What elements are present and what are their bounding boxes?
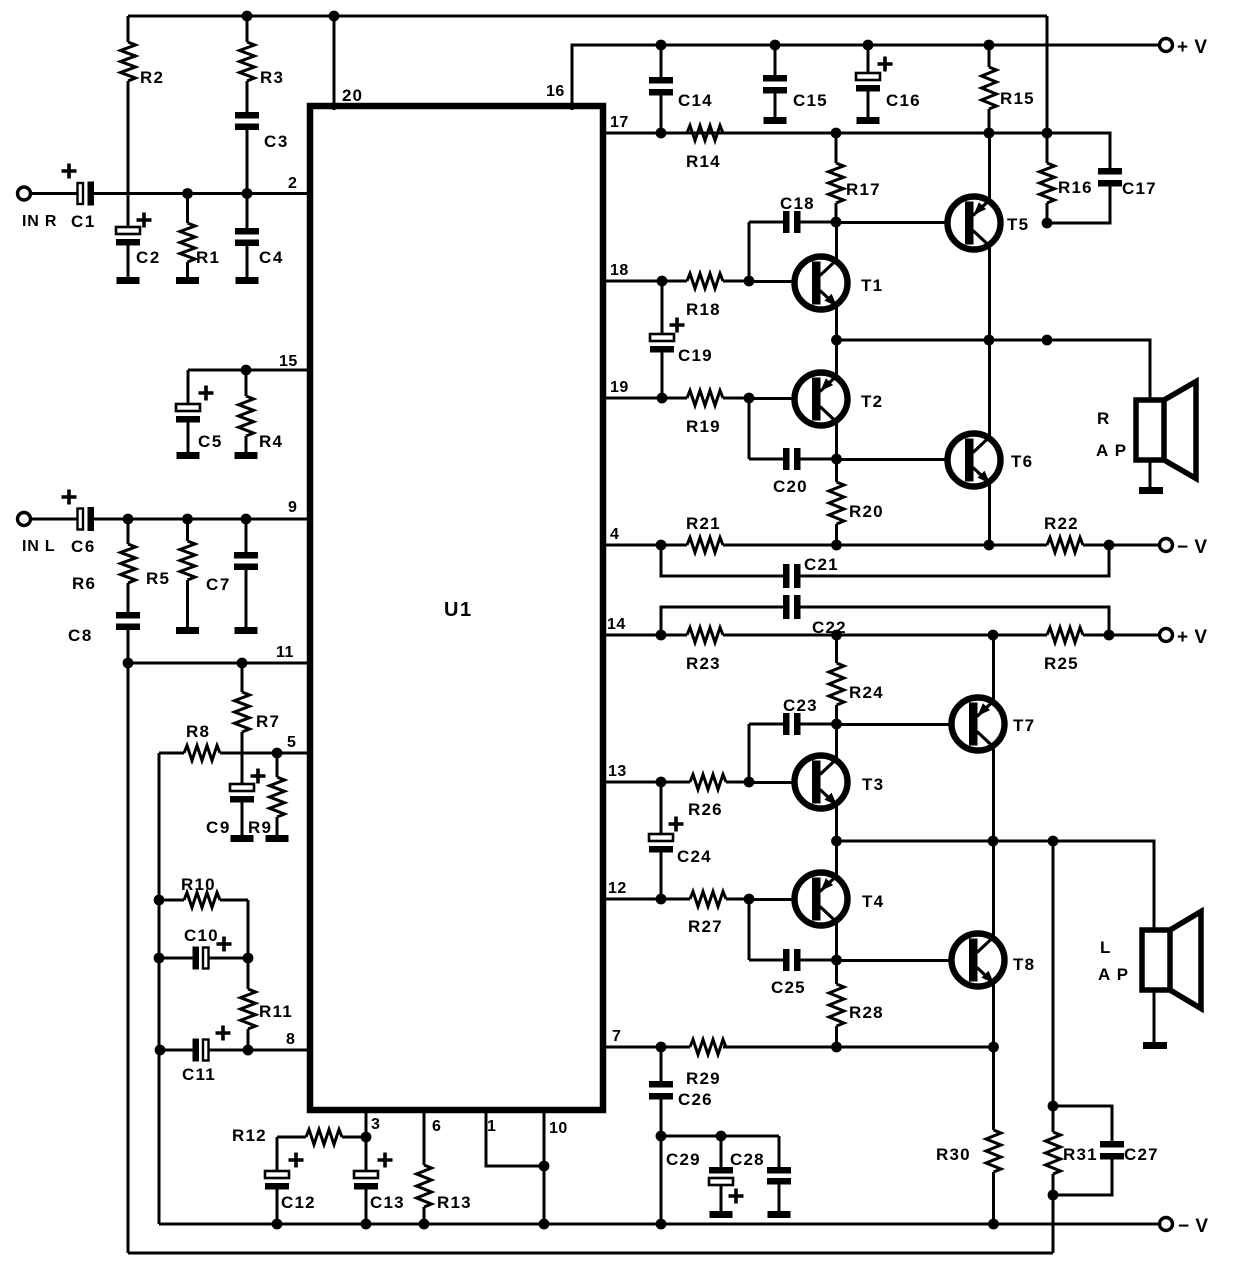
capacitor C28 bbox=[767, 1136, 791, 1211]
svg-text:R1: R1 bbox=[196, 248, 220, 267]
C5 polarity + bbox=[199, 386, 214, 401]
svg-text:15: 15 bbox=[279, 353, 298, 370]
svg-text:IN L: IN L bbox=[22, 538, 55, 555]
node junction bbox=[656, 40, 667, 51]
wire pin 5 bbox=[242, 752, 310, 755]
wire output node R bbox=[837, 340, 1151, 400]
svg-text:R13: R13 bbox=[437, 1193, 472, 1212]
C11 polarity + bbox=[216, 1026, 231, 1041]
svg-text:R30: R30 bbox=[936, 1145, 971, 1164]
resistor R13 bbox=[417, 1110, 432, 1224]
svg-text:C29: C29 bbox=[666, 1150, 701, 1169]
capacitor C5 bbox=[176, 370, 200, 452]
transistor T7 bbox=[952, 698, 1005, 751]
node junction bbox=[243, 953, 254, 964]
svg-text:C17: C17 bbox=[1122, 179, 1157, 198]
svg-text:C5: C5 bbox=[198, 432, 223, 451]
terminal +V bbox=[1160, 629, 1173, 642]
resistor R4 bbox=[239, 370, 254, 452]
ground bbox=[117, 277, 140, 284]
node junction bbox=[831, 955, 842, 966]
svg-text:R6: R6 bbox=[72, 574, 96, 593]
wire bbox=[748, 222, 751, 281]
resistor R15 bbox=[982, 45, 997, 133]
resistor R26 bbox=[604, 775, 749, 790]
capacitor C26 bbox=[649, 1047, 673, 1136]
node junction bbox=[744, 276, 755, 287]
transistor T6 bbox=[948, 434, 1001, 487]
resistor R22 bbox=[1047, 538, 1160, 553]
wire line 4 bbox=[723, 544, 1047, 547]
terminal +V bbox=[1160, 39, 1173, 52]
svg-text:17: 17 bbox=[610, 114, 629, 131]
svg-text:3: 3 bbox=[371, 1116, 380, 1133]
node junction bbox=[539, 1161, 550, 1172]
node junction bbox=[656, 128, 667, 139]
ground bbox=[857, 117, 880, 124]
resistor R19 bbox=[604, 391, 749, 406]
wire T7 base bbox=[836, 723, 952, 726]
resistor R20 bbox=[829, 459, 844, 545]
node B junction bbox=[242, 188, 253, 199]
svg-text:C27: C27 bbox=[1124, 1145, 1159, 1164]
node junction bbox=[182, 514, 193, 525]
node junction bbox=[272, 748, 283, 759]
svg-text:12: 12 bbox=[608, 880, 627, 897]
op-amp U1 (IC body) bbox=[310, 106, 603, 1110]
transistor T5 bbox=[948, 197, 1001, 250]
resistor R2 bbox=[121, 16, 136, 194]
svg-text:A P: A P bbox=[1096, 441, 1127, 460]
svg-text:A P: A P bbox=[1098, 965, 1129, 984]
wire pin 15 bbox=[188, 369, 310, 372]
C13 polarity + bbox=[378, 1153, 393, 1168]
node junction bbox=[744, 894, 755, 905]
capacitor C29 bbox=[709, 1136, 733, 1211]
ground bbox=[1139, 487, 1163, 494]
wire bbox=[1153, 990, 1156, 1042]
capacitor C2 bbox=[116, 194, 140, 278]
node junction bbox=[154, 953, 165, 964]
wire bbox=[660, 1136, 663, 1224]
svg-text:11: 11 bbox=[276, 644, 294, 661]
svg-text:C6: C6 bbox=[71, 537, 96, 556]
node junction bbox=[988, 836, 999, 847]
ground bbox=[177, 452, 200, 459]
node junction bbox=[988, 1042, 999, 1053]
node junction bbox=[770, 40, 781, 51]
node junction bbox=[656, 1131, 667, 1142]
svg-text:R18: R18 bbox=[686, 300, 721, 319]
ground bbox=[266, 835, 289, 842]
capacitor C23 bbox=[749, 713, 836, 735]
speaker L AP bbox=[1142, 912, 1201, 1009]
node junction bbox=[241, 514, 252, 525]
terminal -V bbox=[1160, 1218, 1173, 1231]
wire T8 emitter bbox=[992, 982, 995, 1047]
terminal IN R bbox=[18, 187, 31, 200]
ground bbox=[236, 277, 259, 284]
wire -V return line bbox=[159, 1223, 1160, 1226]
resistor R17 bbox=[829, 133, 844, 222]
node junction bbox=[831, 454, 842, 465]
svg-text:R26: R26 bbox=[688, 800, 723, 819]
wire bbox=[748, 398, 751, 459]
wire bbox=[31, 192, 78, 195]
node junction bbox=[656, 630, 667, 641]
ground bbox=[1143, 1042, 1167, 1049]
svg-text:− V: − V bbox=[1178, 1216, 1209, 1237]
resistor R18 bbox=[604, 274, 749, 289]
node junction bbox=[123, 514, 134, 525]
capacitor C27 bbox=[1053, 1106, 1124, 1195]
transistor T1 bbox=[795, 257, 848, 310]
svg-text:R8: R8 bbox=[186, 722, 210, 741]
wire node 9 net bbox=[94, 518, 310, 521]
node junction bbox=[241, 365, 252, 376]
capacitor C9 bbox=[230, 753, 254, 835]
svg-text:R14: R14 bbox=[686, 152, 721, 171]
ground bbox=[768, 1211, 791, 1218]
node junction bbox=[1104, 540, 1115, 551]
node junction bbox=[656, 894, 667, 905]
svg-text:T2: T2 bbox=[861, 392, 883, 411]
ground bbox=[764, 117, 787, 124]
svg-text:U1: U1 bbox=[444, 599, 473, 621]
resistor R7 bbox=[235, 663, 250, 753]
C29 polarity + bbox=[729, 1189, 744, 1204]
wire bottom border bbox=[128, 1252, 1053, 1255]
wire T6 emitter bbox=[988, 482, 991, 545]
wire T3 base bbox=[749, 781, 795, 784]
svg-text:R15: R15 bbox=[1000, 89, 1035, 108]
ground bbox=[231, 835, 254, 842]
node junction bbox=[984, 40, 995, 51]
svg-text:T3: T3 bbox=[862, 775, 884, 794]
svg-text:C13: C13 bbox=[370, 1193, 405, 1212]
ground bbox=[235, 627, 258, 634]
C9 polarity + bbox=[251, 769, 266, 784]
wire bbox=[1149, 460, 1152, 487]
node junction bbox=[657, 393, 668, 404]
svg-text:R10: R10 bbox=[181, 875, 216, 894]
resistor R16 bbox=[1040, 133, 1055, 223]
resistor R31 bbox=[1046, 1106, 1061, 1195]
resistor R10 bbox=[159, 893, 248, 908]
svg-text:T4: T4 bbox=[862, 892, 884, 911]
resistor R23 bbox=[604, 628, 723, 643]
wire T1 collector bbox=[835, 222, 838, 261]
svg-text:C4: C4 bbox=[259, 248, 284, 267]
wire bbox=[1046, 16, 1049, 133]
wire pin 16 to +V rail bbox=[572, 45, 1160, 110]
svg-text:R12: R12 bbox=[232, 1126, 267, 1145]
capacitor C21 bbox=[661, 545, 1109, 588]
svg-text:C1: C1 bbox=[71, 212, 96, 231]
node junction bbox=[744, 777, 755, 788]
transistor T8 bbox=[952, 934, 1005, 987]
svg-text:7: 7 bbox=[612, 1028, 621, 1045]
wire pin 1 bbox=[486, 1110, 544, 1166]
svg-text:R24: R24 bbox=[849, 683, 884, 702]
transistor T3 bbox=[795, 756, 848, 809]
resistor R12 bbox=[277, 1130, 366, 1145]
node junction bbox=[831, 630, 842, 641]
svg-text:10: 10 bbox=[549, 1120, 568, 1137]
wire pin 10 bbox=[543, 1110, 546, 1224]
ground bbox=[710, 1211, 733, 1218]
svg-text:T7: T7 bbox=[1013, 716, 1035, 735]
wire bbox=[748, 899, 751, 960]
svg-text:14: 14 bbox=[607, 616, 626, 633]
capacitor C13 bbox=[354, 1137, 378, 1224]
svg-text:C9: C9 bbox=[206, 818, 231, 837]
svg-text:9: 9 bbox=[288, 499, 297, 516]
svg-text:19: 19 bbox=[610, 379, 629, 396]
capacitor C20 bbox=[749, 448, 836, 470]
svg-text:R11: R11 bbox=[259, 1002, 293, 1021]
terminal IN L bbox=[18, 513, 31, 526]
svg-text:R7: R7 bbox=[256, 712, 280, 731]
svg-text:6: 6 bbox=[432, 1118, 441, 1135]
capacitor C14 bbox=[649, 45, 673, 133]
resistor R9 bbox=[270, 753, 285, 835]
svg-text:+ V: + V bbox=[1177, 627, 1208, 648]
wire pin 11 bbox=[128, 662, 310, 665]
node junction bbox=[361, 1132, 372, 1143]
node junction bbox=[656, 777, 667, 788]
C16 polarity + bbox=[878, 57, 893, 72]
svg-text:T5: T5 bbox=[1007, 215, 1029, 234]
svg-text:R27: R27 bbox=[688, 917, 723, 936]
C19 polarity + bbox=[670, 318, 685, 333]
wire top rail bbox=[128, 15, 1047, 18]
svg-text:13: 13 bbox=[608, 763, 627, 780]
resistor R24 bbox=[829, 635, 844, 724]
svg-text:C7: C7 bbox=[206, 575, 231, 594]
wire T5 base bbox=[836, 221, 948, 224]
capacitor C1 bbox=[78, 182, 95, 206]
capacitor C12 bbox=[265, 1137, 289, 1224]
svg-text:R21: R21 bbox=[686, 514, 721, 533]
resistor R29 bbox=[604, 1040, 726, 1055]
wire bbox=[1052, 841, 1055, 1106]
svg-text:T1: T1 bbox=[861, 276, 883, 295]
svg-text:+ V: + V bbox=[1177, 37, 1208, 58]
node junction bbox=[831, 217, 842, 228]
node junction bbox=[656, 540, 667, 551]
svg-text:C16: C16 bbox=[886, 91, 921, 110]
node junction bbox=[831, 335, 842, 346]
svg-text:R: R bbox=[1097, 409, 1110, 428]
node junction bbox=[237, 658, 248, 669]
svg-text:1: 1 bbox=[487, 1118, 496, 1135]
node junction bbox=[831, 128, 842, 139]
svg-text:R29: R29 bbox=[686, 1069, 721, 1088]
wire T2 base bbox=[749, 397, 795, 400]
svg-text:C15: C15 bbox=[793, 91, 828, 110]
wire line 7 bbox=[723, 1046, 994, 1049]
C6 polarity + bbox=[62, 490, 77, 505]
ground bbox=[235, 452, 258, 459]
node junction bbox=[539, 1219, 550, 1230]
svg-text:4: 4 bbox=[610, 526, 619, 543]
wire T7 collector bbox=[992, 746, 995, 841]
node junction bbox=[988, 1219, 999, 1230]
capacitor C4 bbox=[235, 194, 259, 277]
node junction bbox=[984, 128, 995, 139]
wire bbox=[661, 1135, 779, 1138]
node junction bbox=[154, 895, 165, 906]
capacitor C22 bbox=[661, 595, 1109, 635]
capacitor C18 bbox=[749, 211, 836, 233]
svg-text:− V: − V bbox=[1177, 537, 1208, 558]
wire T4 base bbox=[749, 898, 795, 901]
svg-text:C20: C20 bbox=[773, 477, 808, 496]
wire line 17 bbox=[661, 132, 1047, 135]
node junction bbox=[863, 40, 874, 51]
svg-text:C8: C8 bbox=[68, 626, 93, 645]
svg-text:C25: C25 bbox=[771, 978, 806, 997]
svg-text:T6: T6 bbox=[1011, 452, 1033, 471]
svg-text:8: 8 bbox=[286, 1031, 295, 1048]
wire pin 8 bbox=[160, 1049, 193, 1052]
resistor R8 bbox=[159, 746, 242, 761]
node A junction bbox=[182, 188, 193, 199]
node junction bbox=[1042, 128, 1053, 139]
node junction bbox=[1104, 630, 1115, 641]
resistor R3 bbox=[240, 16, 255, 112]
resistor R27 bbox=[604, 892, 749, 907]
svg-text:5: 5 bbox=[287, 734, 296, 751]
node junction bbox=[1042, 218, 1053, 229]
node junction bbox=[831, 719, 842, 730]
svg-text:R31: R31 bbox=[1063, 1145, 1098, 1164]
resistor R30 bbox=[986, 1047, 1001, 1224]
svg-text:C26: C26 bbox=[678, 1090, 713, 1109]
wire T6 collector bbox=[988, 340, 991, 438]
node junction bbox=[744, 393, 755, 404]
node junction bbox=[657, 276, 668, 287]
transistor T4 bbox=[795, 873, 848, 926]
ground bbox=[176, 277, 199, 284]
svg-text:C24: C24 bbox=[677, 847, 712, 866]
resistor R6 bbox=[121, 519, 136, 612]
resistor R25 bbox=[1047, 628, 1160, 643]
wire pin 20 bbox=[333, 16, 336, 110]
resistor R14 bbox=[604, 126, 723, 141]
wire T6 base bbox=[836, 458, 948, 461]
node junction bbox=[1048, 1101, 1059, 1112]
node junction bbox=[155, 1045, 166, 1056]
node junction bbox=[272, 1219, 283, 1230]
C1 polarity + bbox=[62, 164, 77, 179]
wire bbox=[31, 518, 78, 521]
svg-text:C3: C3 bbox=[264, 132, 289, 151]
resistor R5 bbox=[180, 519, 195, 627]
terminal -V bbox=[1160, 539, 1173, 552]
C2 polarity + bbox=[137, 213, 152, 228]
wire bbox=[1052, 1195, 1055, 1253]
svg-text:16: 16 bbox=[546, 83, 565, 100]
C10 polarity + bbox=[217, 937, 232, 952]
node junction bbox=[988, 630, 999, 641]
wire T8 collector bbox=[992, 841, 995, 938]
svg-text:18: 18 bbox=[610, 262, 629, 279]
wire T3 collector bbox=[835, 724, 838, 760]
svg-text:R5: R5 bbox=[146, 569, 170, 588]
node junction bbox=[984, 540, 995, 551]
node junction bbox=[984, 335, 995, 346]
wire T4 collector bbox=[835, 921, 838, 960]
wire T1 emitter bbox=[835, 305, 838, 340]
resistor R11 bbox=[241, 958, 256, 1050]
svg-text:R22: R22 bbox=[1044, 514, 1079, 533]
speaker R AP bbox=[1136, 382, 1196, 479]
wire bbox=[748, 724, 751, 782]
node junction bbox=[1048, 836, 1059, 847]
capacitor C17 bbox=[1047, 133, 1122, 223]
svg-text:R23: R23 bbox=[686, 654, 721, 673]
svg-text:R3: R3 bbox=[260, 68, 284, 87]
node junction bbox=[361, 1219, 372, 1230]
C24 polarity + bbox=[669, 817, 684, 832]
svg-text:R28: R28 bbox=[849, 1003, 884, 1022]
wire output node L bbox=[837, 841, 1155, 930]
svg-text:C23: C23 bbox=[783, 696, 818, 715]
capacitor C16 bbox=[856, 45, 880, 117]
node junction bbox=[242, 11, 253, 22]
svg-text:C2: C2 bbox=[136, 248, 161, 267]
resistor R1 bbox=[180, 194, 195, 277]
svg-text:2: 2 bbox=[288, 175, 297, 192]
svg-text:C28: C28 bbox=[730, 1150, 765, 1169]
wire node 2 net bbox=[94, 192, 310, 195]
capacitor C15 bbox=[763, 45, 787, 117]
wire T8 base bbox=[836, 959, 952, 962]
capacitor C3 bbox=[235, 112, 259, 194]
capacitor C8 bbox=[116, 612, 140, 663]
node junction bbox=[656, 1042, 667, 1053]
capacitor C6 bbox=[78, 507, 95, 531]
svg-text:R17: R17 bbox=[846, 180, 881, 199]
svg-text:C12: C12 bbox=[281, 1193, 316, 1212]
capacitor C19 bbox=[650, 281, 674, 398]
capacitor C25 bbox=[749, 949, 836, 971]
node junction bbox=[329, 11, 340, 22]
node junction bbox=[831, 1042, 842, 1053]
wire T7 emitter bbox=[992, 635, 995, 702]
svg-text:R16: R16 bbox=[1058, 178, 1093, 197]
wire T1 base bbox=[749, 280, 795, 283]
svg-text:R2: R2 bbox=[140, 68, 164, 87]
svg-text:T8: T8 bbox=[1013, 955, 1035, 974]
svg-text:R20: R20 bbox=[849, 502, 884, 521]
node junction bbox=[716, 1131, 727, 1142]
svg-text:C18: C18 bbox=[780, 194, 815, 213]
wire bbox=[247, 900, 250, 958]
wire line 14 bbox=[723, 634, 1047, 637]
svg-text:R9: R9 bbox=[248, 818, 272, 837]
capacitor C11 bbox=[193, 1039, 311, 1062]
transistor T2 bbox=[795, 373, 848, 426]
node junction bbox=[1048, 1190, 1059, 1201]
node junction bbox=[656, 1219, 667, 1230]
C12 polarity + bbox=[289, 1153, 304, 1168]
capacitor C7 bbox=[234, 519, 258, 627]
resistor R28 bbox=[829, 960, 844, 1047]
svg-text:L: L bbox=[1100, 938, 1112, 957]
